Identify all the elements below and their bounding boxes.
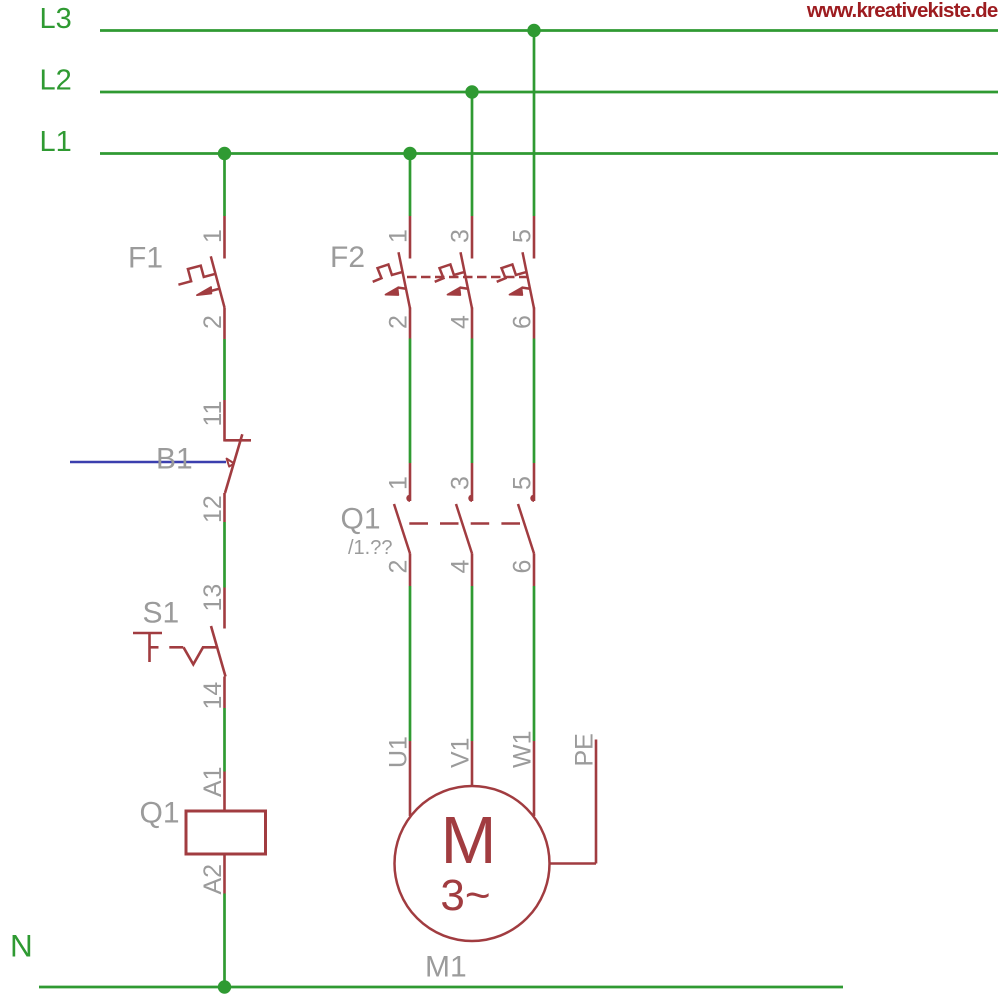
- svg-text:L1: L1: [40, 126, 72, 158]
- svg-text:14: 14: [199, 682, 227, 710]
- svg-text:PE: PE: [571, 733, 599, 766]
- svg-text:W1: W1: [509, 731, 537, 769]
- svg-text:2: 2: [199, 315, 227, 329]
- svg-text:1: 1: [199, 229, 227, 243]
- svg-text:F1: F1: [128, 242, 163, 275]
- svg-text:L2: L2: [40, 65, 72, 97]
- svg-text:M1: M1: [425, 951, 467, 984]
- svg-text:5: 5: [509, 229, 537, 243]
- svg-text:U1: U1: [385, 736, 413, 768]
- svg-text:1: 1: [385, 476, 413, 490]
- svg-text:www.kreativekiste.de: www.kreativekiste.de: [806, 0, 998, 22]
- svg-text:4: 4: [447, 560, 475, 574]
- svg-text:S1: S1: [143, 597, 180, 630]
- svg-text:11: 11: [199, 401, 227, 427]
- svg-text:Q1: Q1: [341, 503, 381, 536]
- svg-text:V1: V1: [447, 737, 475, 768]
- svg-text:13: 13: [199, 584, 227, 612]
- svg-text:3: 3: [447, 476, 475, 490]
- svg-text:3~: 3~: [440, 871, 490, 920]
- svg-text:3: 3: [447, 229, 475, 243]
- svg-text:F2: F2: [330, 241, 365, 274]
- svg-text:/1.??: /1.??: [348, 537, 392, 559]
- svg-text:Q1: Q1: [140, 797, 180, 830]
- svg-text:A1: A1: [199, 766, 227, 797]
- svg-text:A2: A2: [199, 864, 227, 895]
- svg-text:4: 4: [447, 315, 475, 329]
- svg-text:6: 6: [509, 315, 537, 329]
- svg-text:1: 1: [385, 229, 413, 243]
- svg-text:6: 6: [509, 560, 537, 574]
- svg-text:M: M: [441, 803, 497, 878]
- svg-text:2: 2: [385, 315, 413, 329]
- svg-text:5: 5: [509, 476, 537, 490]
- svg-text:2: 2: [385, 560, 413, 574]
- svg-text:L3: L3: [40, 3, 72, 35]
- svg-text:B1: B1: [156, 443, 193, 476]
- svg-text:12: 12: [199, 495, 227, 523]
- svg-text:N: N: [10, 928, 33, 964]
